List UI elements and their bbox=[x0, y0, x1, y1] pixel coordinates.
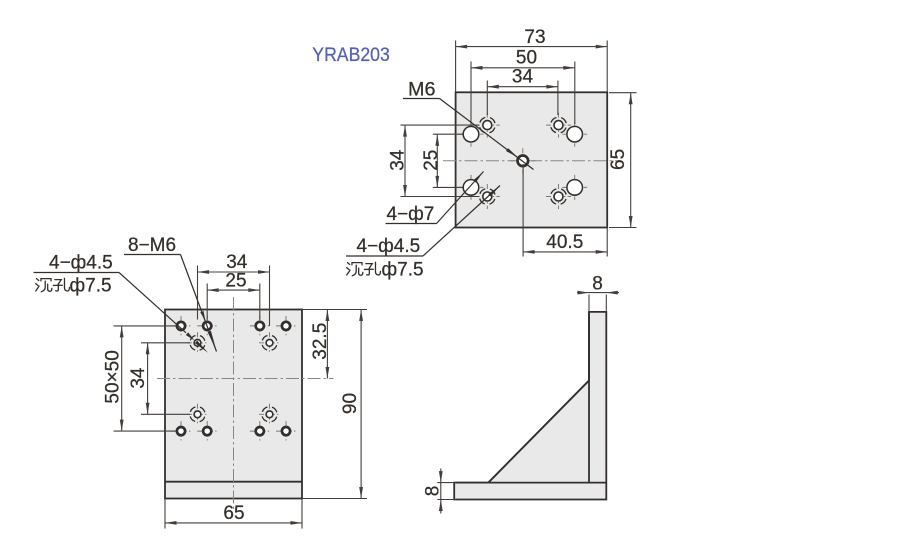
M6 center hole top view bbox=[510, 148, 535, 173]
counterbore hole front view #1 bbox=[187, 332, 208, 353]
label 4-phi4.5 with leader bbox=[346, 186, 500, 258]
hole phi7 top view #1 bbox=[459, 122, 484, 147]
dim 25 front top bbox=[207, 270, 260, 292]
hole M6 front view #6 bbox=[197, 421, 217, 441]
dim 73 top view bbox=[456, 27, 608, 48]
dim 25 left top view bbox=[421, 134, 442, 187]
extension lines dim 8 top bbox=[589, 295, 606, 312]
dim 34 front top bbox=[198, 252, 270, 274]
extension lines dim 50x50 bbox=[114, 326, 177, 431]
hole M6 front view #3 bbox=[250, 316, 270, 336]
svg-text:8: 8 bbox=[423, 486, 444, 497]
dim 65 front bottom bbox=[165, 503, 302, 525]
extension lines dim 34 left bbox=[401, 125, 480, 196]
svg-text:4−ф7: 4−ф7 bbox=[387, 204, 435, 225]
dim 32.5 right bbox=[310, 310, 331, 379]
side view L-profile filled shape bbox=[454, 312, 606, 500]
counterbore hole front view #4 bbox=[259, 404, 280, 425]
counterbore hole top view #2 bbox=[546, 113, 571, 138]
dim 34 top view bbox=[487, 67, 558, 89]
counterbore hole top view #1 bbox=[475, 113, 500, 138]
hole M6 front view #7 bbox=[250, 421, 270, 441]
hole M6 front view #5 bbox=[171, 421, 191, 441]
hole M6 front view #8 bbox=[276, 421, 296, 441]
extension lines dim 65 front bbox=[165, 499, 302, 529]
svg-text:65: 65 bbox=[608, 149, 629, 170]
svg-text:25: 25 bbox=[421, 150, 442, 171]
svg-text:4−ф4.5: 4−ф4.5 bbox=[357, 236, 421, 257]
svg-text:34: 34 bbox=[128, 367, 149, 389]
dim 8 top side view bbox=[577, 274, 619, 295]
top view horizontal centerline bbox=[443, 160, 619, 162]
hole phi7 top view #4 bbox=[562, 175, 587, 200]
extension lines dim 34 front top bbox=[198, 266, 270, 327]
label chenkong phi7.5 front view bbox=[36, 275, 112, 296]
hole phi7 top view #2 bbox=[562, 122, 587, 147]
hole M6 front view #4 bbox=[276, 316, 296, 336]
extension lines dim 25 left bbox=[433, 134, 463, 187]
label M6 with leader bbox=[403, 79, 534, 170]
front view vertical centerline bbox=[233, 297, 235, 509]
extension lines dim 34 top bbox=[487, 81, 558, 116]
side view leg left edge bbox=[588, 312, 590, 483]
hole M6 front view #2 bbox=[197, 316, 217, 336]
counterbore hole front view #3 bbox=[187, 404, 208, 425]
label 4-phi7 with leader bbox=[386, 172, 484, 226]
svg-text:34: 34 bbox=[387, 149, 408, 171]
svg-text:50: 50 bbox=[516, 48, 537, 69]
plate front view outline bbox=[165, 310, 302, 499]
side view gusset hypotenuse bbox=[488, 381, 589, 483]
svg-text:90: 90 bbox=[340, 393, 361, 414]
svg-text:4−ф4.5: 4−ф4.5 bbox=[49, 253, 113, 274]
hole phi7 top view #3 bbox=[459, 175, 484, 200]
svg-text:34: 34 bbox=[512, 67, 534, 88]
side view base top edge bbox=[454, 482, 606, 484]
extension lines dim 65 right bbox=[609, 93, 637, 228]
svg-text:8−M6: 8−M6 bbox=[128, 235, 176, 256]
extension lines dim 8 left bbox=[437, 483, 456, 500]
svg-text:M6: M6 bbox=[408, 79, 435, 101]
plate top view outline bbox=[456, 92, 608, 227]
svg-text:25: 25 bbox=[225, 270, 246, 291]
front view horizontal centerline bbox=[157, 378, 334, 380]
extension lines dim 50 bbox=[471, 62, 575, 125]
extension lines dim 90 bbox=[302, 310, 367, 499]
dim 50 top view bbox=[471, 48, 575, 70]
counterbore hole top view #4 bbox=[546, 184, 571, 209]
counterbore hole top view #3 bbox=[475, 184, 500, 209]
svg-text:65: 65 bbox=[223, 503, 244, 524]
svg-text:50×50: 50×50 bbox=[102, 350, 123, 403]
part number title YRAB203 bbox=[312, 45, 390, 66]
dim 50x50 left bbox=[102, 326, 123, 431]
dim 40.5 top view bbox=[523, 232, 607, 254]
dim 34 left top view bbox=[387, 125, 408, 196]
extension lines dim 40.5 bbox=[523, 164, 607, 257]
extension line dim 32.5 bbox=[302, 309, 334, 311]
svg-text:ф7.5: ф7.5 bbox=[70, 275, 112, 296]
svg-text:ф7.5: ф7.5 bbox=[382, 259, 424, 280]
svg-text:32.5: 32.5 bbox=[310, 323, 331, 360]
hole M6 front view #1 bbox=[171, 316, 191, 336]
extension lines dim 34 front left bbox=[141, 343, 190, 415]
extension lines dim 73 bbox=[456, 41, 608, 93]
dim 34 front left bbox=[128, 343, 149, 415]
dim 8 left side view bbox=[423, 469, 444, 514]
svg-text:YRAB203: YRAB203 bbox=[312, 45, 390, 66]
dim 65 right top view bbox=[608, 93, 632, 228]
label 4-phi4.5 front with leader bbox=[34, 253, 209, 353]
counterbore hole front view #2 bbox=[259, 332, 280, 353]
svg-text:73: 73 bbox=[524, 27, 545, 48]
svg-text:40.5: 40.5 bbox=[546, 232, 583, 253]
extension lines dim 25 front top bbox=[207, 284, 260, 320]
svg-text:8: 8 bbox=[592, 274, 603, 295]
label chenkong phi7.5 top view bbox=[347, 259, 424, 280]
label 8-M6 with leader bbox=[124, 235, 217, 352]
front view base edge line bbox=[165, 481, 302, 483]
dim 90 right bbox=[340, 310, 363, 499]
